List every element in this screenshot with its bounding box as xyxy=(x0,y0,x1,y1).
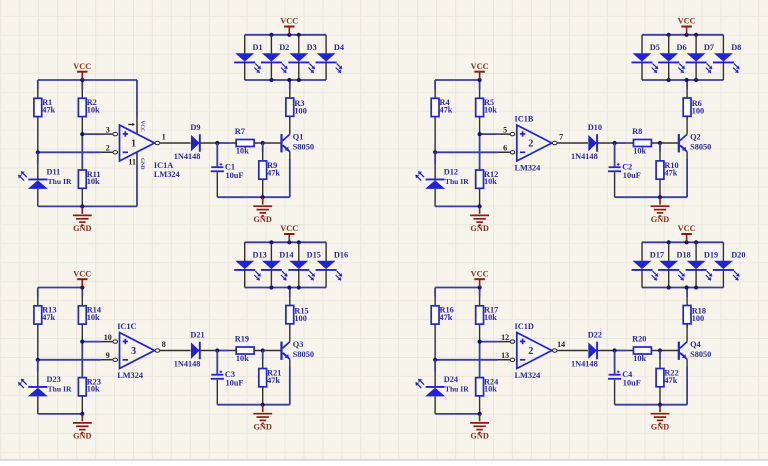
svg-text:D20: D20 xyxy=(731,250,745,259)
svg-text:100: 100 xyxy=(294,106,306,115)
ground GND (3 bridge) xyxy=(73,414,92,441)
resistor R21 47k xyxy=(259,351,282,405)
wire VCC rail (2 bridge top) xyxy=(435,78,482,89)
wire bridge ground rail xyxy=(435,412,482,416)
wire inverting input net (node R1/D11) xyxy=(36,150,101,154)
transistor Q2 S8050 xyxy=(660,116,711,159)
diode D22 1N4148 xyxy=(571,331,615,369)
svg-text:100: 100 xyxy=(692,106,704,115)
svg-text:D11: D11 xyxy=(47,167,61,176)
svg-text:VCC: VCC xyxy=(280,224,298,233)
wire inverting input net (node R16/D24) xyxy=(433,358,498,362)
capacitor C4 10uF xyxy=(608,351,641,405)
svg-text:D4: D4 xyxy=(334,43,344,52)
svg-text:D15: D15 xyxy=(307,250,321,259)
power flag VCC (3 bridge) xyxy=(73,269,91,287)
power flag VCC (LED array 1) xyxy=(280,17,298,35)
LED D20 xyxy=(713,242,746,287)
resistor R17 10k xyxy=(476,297,499,342)
LED D14 xyxy=(261,242,294,287)
resistor R19 10k xyxy=(229,335,263,364)
resistor R16 47k xyxy=(431,297,454,360)
svg-text:S8050: S8050 xyxy=(690,350,711,359)
resistor R14 10k xyxy=(78,297,101,342)
svg-text:D6: D6 xyxy=(677,43,687,52)
svg-text:10: 10 xyxy=(104,333,112,342)
svg-text:VCC: VCC xyxy=(471,62,489,71)
wire inverting input net (node R13/D23) xyxy=(36,358,101,362)
ground GND (4 bridge) xyxy=(470,414,489,441)
wire output-stage ground rail xyxy=(615,159,688,199)
svg-text:D24: D24 xyxy=(444,375,458,384)
svg-text:GND: GND xyxy=(470,224,488,233)
svg-text:D3: D3 xyxy=(307,43,317,52)
resistor R20 10k xyxy=(626,335,660,364)
svg-text:D16: D16 xyxy=(334,250,348,259)
svg-text:GND: GND xyxy=(253,215,271,224)
svg-text:10k: 10k xyxy=(236,354,249,363)
svg-text:VCC: VCC xyxy=(678,224,696,233)
wire noninverting input net (node R14/R23) xyxy=(80,340,100,378)
wire inverting input net (node R4/D12) xyxy=(433,150,498,154)
svg-text:GND: GND xyxy=(73,224,91,233)
resistor R8 10k xyxy=(626,127,660,156)
wire LED array rails xyxy=(642,240,723,289)
photodiode D12 Thu IR xyxy=(416,152,470,206)
ground GND (output stage 2) xyxy=(651,197,670,224)
svg-text:D14: D14 xyxy=(279,250,293,259)
resistor R12 10k xyxy=(476,170,499,206)
wire bridge ground rail xyxy=(435,204,482,208)
op-amp IC1B LM324 xyxy=(498,115,588,173)
wire VCC rail (1 bridge top) xyxy=(38,78,137,89)
junction node R8/R10 xyxy=(658,141,662,145)
junction node D9/C1 xyxy=(215,141,229,145)
junction node D10/C2 xyxy=(613,141,627,145)
LED D8 xyxy=(713,35,741,80)
svg-text:9: 9 xyxy=(106,351,110,360)
svg-text:1N4148: 1N4148 xyxy=(571,152,598,161)
wire VCC rail (4 bridge top) xyxy=(435,285,482,296)
op-amp IC1C LM324 xyxy=(101,322,191,380)
svg-text:S8050: S8050 xyxy=(690,143,711,152)
resistor R18 100 xyxy=(683,288,706,328)
svg-text:Thu IR: Thu IR xyxy=(445,177,469,186)
svg-text:VCC: VCC xyxy=(280,17,298,26)
svg-text:10k: 10k xyxy=(87,105,100,114)
LED D16 xyxy=(316,242,349,287)
svg-text:D5: D5 xyxy=(650,43,660,52)
svg-text:LM324: LM324 xyxy=(117,371,143,380)
resistor R1 47k xyxy=(34,89,56,152)
sheet edge shading (bottom) xyxy=(0,459,768,461)
resistor R15 100 xyxy=(286,288,309,328)
LED D13 xyxy=(234,242,267,287)
svg-text:47k: 47k xyxy=(267,168,280,177)
svg-text:LM324: LM324 xyxy=(154,170,180,179)
svg-text:10k: 10k xyxy=(87,313,100,322)
svg-text:D9: D9 xyxy=(190,123,200,132)
svg-text:GND: GND xyxy=(651,423,669,432)
svg-text:100: 100 xyxy=(294,314,306,323)
svg-text:GND: GND xyxy=(651,215,669,224)
svg-text:D19: D19 xyxy=(704,250,718,259)
svg-text:Q3: Q3 xyxy=(293,340,304,349)
svg-text:D23: D23 xyxy=(47,375,61,384)
svg-text:3: 3 xyxy=(106,126,110,135)
LED D15 xyxy=(288,242,321,287)
wire VCC rail (3 bridge top) xyxy=(38,285,85,296)
wire output-stage ground rail xyxy=(217,159,289,199)
op-amp IC1A LM324 xyxy=(101,80,191,206)
svg-text:1N4148: 1N4148 xyxy=(571,360,598,369)
svg-text:D2: D2 xyxy=(279,43,289,52)
svg-text:D1: D1 xyxy=(253,43,263,52)
wire bridge ground rail xyxy=(38,412,85,416)
svg-text:IC1B: IC1B xyxy=(515,115,534,124)
diode D21 1N4148 xyxy=(174,331,218,369)
svg-text:10k: 10k xyxy=(633,147,646,156)
svg-text:D12: D12 xyxy=(444,167,458,176)
svg-text:IC1D: IC1D xyxy=(515,322,534,331)
wire noninverting input net (node R5/R12) xyxy=(478,132,498,170)
svg-text:R20: R20 xyxy=(632,335,646,344)
svg-text:47k: 47k xyxy=(664,376,677,385)
wire output-stage ground rail xyxy=(217,367,289,407)
svg-text:10uF: 10uF xyxy=(226,379,244,388)
svg-text:LM324: LM324 xyxy=(515,163,541,172)
svg-text:D13: D13 xyxy=(253,250,267,259)
resistor R5 10k xyxy=(476,89,498,134)
LED D19 xyxy=(686,242,719,287)
capacitor C2 10uF xyxy=(608,143,641,197)
power flag VCC (4 bridge) xyxy=(471,269,489,287)
svg-text:13: 13 xyxy=(501,351,509,360)
svg-text:6: 6 xyxy=(503,144,507,153)
svg-text:7: 7 xyxy=(559,133,563,142)
photodiode D23 Thu IR xyxy=(18,360,72,414)
resistor R6 100 xyxy=(683,80,704,120)
svg-text:R19: R19 xyxy=(235,335,249,344)
power flag VCC (LED array 2) xyxy=(678,17,696,35)
ground GND (output stage 1) xyxy=(253,197,272,224)
transistor Q1 S8050 xyxy=(263,116,314,159)
LED D5 xyxy=(632,35,660,80)
ground GND (1 bridge) xyxy=(73,206,92,233)
LED D4 xyxy=(316,35,344,80)
svg-text:11: 11 xyxy=(128,158,136,167)
ground GND (2 bridge) xyxy=(470,206,489,233)
svg-text:10k: 10k xyxy=(484,385,497,394)
svg-text:VCC: VCC xyxy=(73,62,91,71)
junction node D21/C3 xyxy=(215,348,229,352)
wire bridge ground rail xyxy=(38,204,137,208)
svg-text:GND: GND xyxy=(253,423,271,432)
LED D6 xyxy=(658,35,686,80)
svg-text:D10: D10 xyxy=(588,123,602,132)
svg-text:10uF: 10uF xyxy=(226,171,244,180)
junction node R19/R21 xyxy=(261,348,265,352)
svg-text:47k: 47k xyxy=(440,105,453,114)
transistor Q3 S8050 xyxy=(263,324,314,367)
svg-text:IC1A: IC1A xyxy=(154,161,173,170)
svg-text:2: 2 xyxy=(106,144,110,153)
svg-text:2: 2 xyxy=(528,346,533,357)
power flag VCC (LED array 4) xyxy=(678,224,696,242)
svg-text:Thu IR: Thu IR xyxy=(445,385,469,394)
resistor R22 47k xyxy=(656,351,679,405)
svg-text:47k: 47k xyxy=(440,313,453,322)
svg-text:D21: D21 xyxy=(190,331,204,340)
LED D7 xyxy=(686,35,714,80)
svg-text:Thu IR: Thu IR xyxy=(48,385,72,394)
svg-text:R7: R7 xyxy=(235,127,245,136)
svg-text:10k: 10k xyxy=(484,177,497,186)
svg-text:Q4: Q4 xyxy=(690,340,701,349)
wire noninverting input net (node R2/R11) xyxy=(80,132,100,170)
photodiode D24 Thu IR xyxy=(416,360,470,414)
resistor R10 47k xyxy=(656,143,679,197)
op-amp IC1D LM324 xyxy=(498,322,588,380)
svg-text:S8050: S8050 xyxy=(293,350,314,359)
LED D17 xyxy=(632,242,665,287)
svg-text:S8050: S8050 xyxy=(293,143,314,152)
svg-text:1N4148: 1N4148 xyxy=(174,152,201,161)
resistor R24 10k xyxy=(476,378,499,414)
wire LED array rails xyxy=(245,33,326,82)
svg-text:IC1C: IC1C xyxy=(117,322,136,331)
svg-text:10k: 10k xyxy=(236,147,249,156)
svg-text:VCC: VCC xyxy=(678,17,696,26)
wire noninverting input net (node R17/R24) xyxy=(478,340,498,378)
svg-text:VCC: VCC xyxy=(73,269,91,278)
capacitor C1 10uF xyxy=(211,143,244,197)
svg-text:1: 1 xyxy=(162,133,166,142)
svg-text:3: 3 xyxy=(131,346,136,357)
svg-text:D7: D7 xyxy=(704,43,714,52)
svg-text:D22: D22 xyxy=(588,331,602,340)
svg-text:R8: R8 xyxy=(632,127,642,136)
wire LED array rails xyxy=(245,240,326,289)
photodiode D11 Thu IR xyxy=(18,152,72,206)
LED D2 xyxy=(261,35,289,80)
resistor R2 10k xyxy=(78,89,100,134)
svg-text:LM324: LM324 xyxy=(515,371,541,380)
svg-text:47k: 47k xyxy=(42,105,55,114)
LED D18 xyxy=(658,242,691,287)
svg-text:D18: D18 xyxy=(677,250,691,259)
transistor Q4 S8050 xyxy=(660,324,711,367)
svg-text:5: 5 xyxy=(503,126,507,135)
junction node R20/R22 xyxy=(658,348,662,352)
wire output-stage ground rail xyxy=(615,367,688,407)
power flag VCC (1 bridge) xyxy=(73,62,91,80)
svg-text:1N4148: 1N4148 xyxy=(174,360,201,369)
diode D10 1N4148 xyxy=(571,123,615,161)
svg-text:12: 12 xyxy=(501,333,509,342)
svg-text:VCC: VCC xyxy=(471,269,489,278)
wire LED array rails xyxy=(642,33,723,82)
svg-text:100: 100 xyxy=(692,314,704,323)
diode D9 1N4148 xyxy=(174,123,218,161)
svg-text:10k: 10k xyxy=(633,354,646,363)
ground GND (output stage 3) xyxy=(253,405,272,432)
svg-text:2: 2 xyxy=(528,139,533,150)
junction node R7/R9 xyxy=(261,141,265,145)
svg-text:VCC: VCC xyxy=(139,121,145,132)
resistor R23 10k xyxy=(78,378,101,414)
svg-text:Q1: Q1 xyxy=(293,132,304,141)
resistor R9 47k xyxy=(259,143,281,197)
resistor R4 47k xyxy=(431,89,453,152)
svg-text:Thu IR: Thu IR xyxy=(48,177,72,186)
svg-text:Q2: Q2 xyxy=(690,132,701,141)
resistor R11 10k xyxy=(78,170,100,206)
svg-text:10k: 10k xyxy=(87,177,100,186)
svg-text:10k: 10k xyxy=(484,105,497,114)
junction node D22/C4 xyxy=(613,348,627,352)
resistor R7 10k xyxy=(229,127,263,156)
ground GND (output stage 4) xyxy=(651,405,670,432)
svg-text:47k: 47k xyxy=(664,168,677,177)
svg-text:10k: 10k xyxy=(484,313,497,322)
svg-text:10k: 10k xyxy=(87,385,100,394)
LED D1 xyxy=(234,35,262,80)
svg-text:GND: GND xyxy=(470,432,488,441)
svg-text:GND: GND xyxy=(73,432,91,441)
svg-text:8: 8 xyxy=(162,340,166,349)
svg-text:D17: D17 xyxy=(650,250,664,259)
svg-text:10uF: 10uF xyxy=(623,379,641,388)
svg-text:D8: D8 xyxy=(731,43,741,52)
capacitor C3 10uF xyxy=(211,351,244,405)
power flag VCC (LED array 3) xyxy=(280,224,298,242)
svg-text:GND: GND xyxy=(139,158,145,170)
svg-text:47k: 47k xyxy=(42,313,55,322)
svg-text:1: 1 xyxy=(131,139,136,150)
LED D3 xyxy=(288,35,316,80)
resistor R13 47k xyxy=(34,297,57,360)
resistor R3 100 xyxy=(286,80,307,120)
svg-text:14: 14 xyxy=(557,340,565,349)
svg-text:47k: 47k xyxy=(267,376,280,385)
power flag VCC (2 bridge) xyxy=(471,62,489,80)
svg-text:10uF: 10uF xyxy=(623,171,641,180)
